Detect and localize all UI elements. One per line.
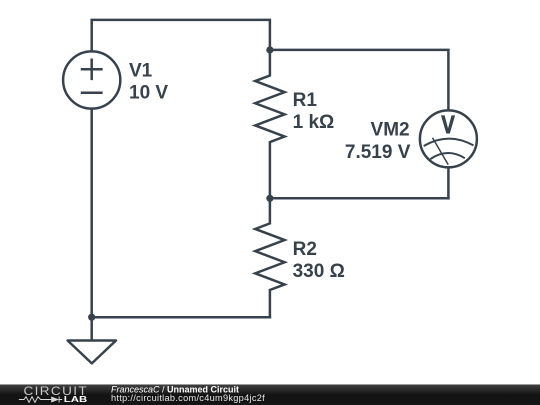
svg-text:LAB: LAB: [64, 394, 87, 404]
svg-text:330 Ω: 330 Ω: [293, 261, 345, 282]
svg-text:VM2: VM2: [371, 120, 410, 141]
svg-text:7.519 V: 7.519 V: [345, 142, 411, 163]
svg-text:V1: V1: [129, 60, 153, 81]
svg-text:1 kΩ: 1 kΩ: [293, 112, 335, 133]
svg-text:http://circuitlab.com/c4um9kgp: http://circuitlab.com/c4um9kgp4jc2f: [111, 393, 265, 403]
svg-text:R1: R1: [293, 90, 318, 111]
svg-text:10 V: 10 V: [129, 83, 168, 104]
svg-text:R2: R2: [293, 239, 317, 260]
